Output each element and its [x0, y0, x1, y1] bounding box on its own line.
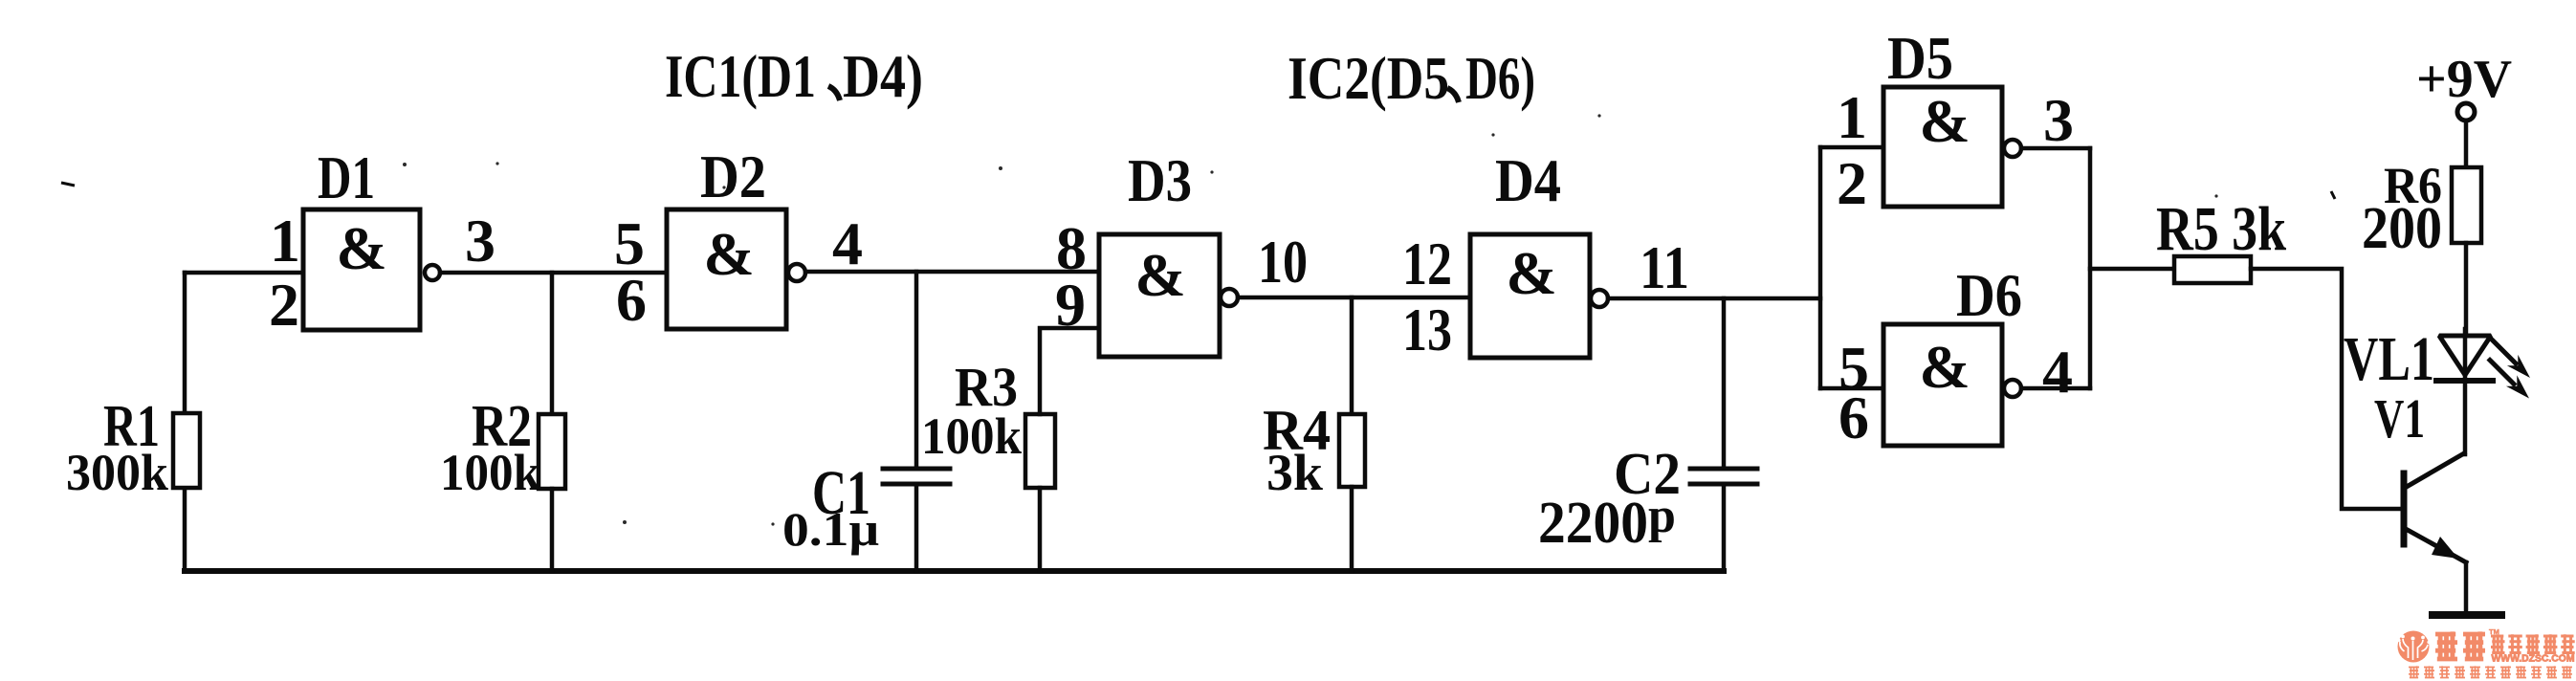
svg-text:&: &: [1919, 87, 1970, 155]
wire R5 to transistor base corner: [2251, 269, 2404, 509]
wire emitter down to ground: [2464, 562, 2469, 613]
nand-gate D3 box: [1099, 234, 1220, 357]
svg-text:IC1(D1: IC1(D1: [665, 42, 816, 110]
capacitor C1 top plate: [883, 467, 950, 472]
wire R2 to bottom rail: [550, 489, 555, 571]
nand-gate D2 box: [667, 209, 786, 329]
svg-text:3: 3: [2043, 86, 2074, 154]
wire C2 branch down from node 11: [1722, 298, 1727, 469]
svg-text:2: 2: [1837, 149, 1867, 217]
nand-gate D5 output bubble: [2004, 140, 2021, 157]
ground symbol bar: [2433, 611, 2501, 619]
svg-text:&: &: [1919, 333, 1970, 401]
scan speck dots: [403, 114, 2218, 525]
wire R6 to LED anode: [2464, 243, 2469, 335]
svg-text:WWW.DZSC.COM: WWW.DZSC.COM: [2492, 653, 2575, 665]
svg-text:V1: V1: [2374, 387, 2425, 450]
capacitor C1 bottom plate: [883, 482, 950, 487]
svg-text:9: 9: [1055, 271, 1086, 339]
svg-text:6: 6: [1838, 384, 1869, 451]
svg-text:+9V: +9V: [2416, 50, 2512, 109]
svg-text:200: 200: [2362, 196, 2442, 261]
chip label IC1(D1,D4): [665, 42, 923, 110]
wire R2 branch down from node 3: [550, 273, 555, 414]
chip label IC2(D5,D6): [1288, 44, 1535, 112]
wire terminal to R6: [2464, 121, 2469, 167]
wire R4 to bottom rail: [1350, 487, 1354, 571]
watermark subtitle characters dianzishichangwang: [2491, 634, 2575, 652]
wire D5/D6 input vertical bus: [1818, 147, 1823, 388]
wire D1 input horizontal: [185, 271, 303, 275]
wire C2 to bottom rail: [1722, 484, 1727, 571]
LED VL1 light emission arrow 2: [2490, 361, 2529, 399]
svg-text:&: &: [703, 220, 754, 288]
wire R3 up to D3 pin 9: [1040, 328, 1099, 414]
transistor V1 collector slant: [2405, 453, 2464, 488]
svg-text:&: &: [1134, 241, 1185, 309]
wire node 11: D4 output to D5/D6 inputs: [1608, 297, 1820, 301]
svg-text:D1: D1: [318, 143, 375, 211]
svg-text:R5 3k: R5 3k: [2156, 194, 2286, 264]
svg-text:D4: D4: [1495, 146, 1561, 214]
wire output vertical bus joining D5 and D6 outputs: [2088, 148, 2093, 388]
wire LED anode through triangle: [2463, 329, 2468, 381]
svg-text:4: 4: [2042, 338, 2073, 406]
svg-text:2200: 2200: [1538, 491, 1648, 556]
svg-text:10: 10: [1258, 228, 1308, 296]
svg-text:D3: D3: [1128, 146, 1192, 214]
svg-text:p: p: [1648, 489, 1676, 543]
nand-gate D6 box: [1883, 324, 2002, 446]
svg-text:3: 3: [465, 207, 495, 275]
LED VL1 cathode bar: [2436, 378, 2493, 384]
svg-text:4: 4: [832, 209, 863, 277]
svg-text:IC2(D5: IC2(D5: [1288, 44, 1449, 112]
svg-text:D5: D5: [1887, 24, 1953, 92]
resistor R2 body: [539, 414, 565, 489]
nand-gate D6 output bubble: [2004, 380, 2021, 397]
nand-gate D1 box: [303, 209, 420, 330]
wire D6 output node 4: [2021, 386, 2090, 391]
nand-gate D1 output bubble: [425, 265, 440, 280]
nand-gate D5 box: [1883, 87, 2002, 207]
transistor V1 base bar: [2401, 473, 2408, 544]
power terminal +9V circle: [2457, 103, 2475, 121]
nand-gate D4 box: [1470, 234, 1590, 358]
nand-gate D4 output bubble: [1591, 290, 1608, 307]
wire C1 branch down from node 4: [914, 272, 919, 469]
resistor R3 body: [1025, 414, 1055, 488]
wire to R5: [2090, 267, 2174, 272]
svg-text:100k: 100k: [921, 407, 1022, 465]
svg-text:1: 1: [270, 207, 300, 275]
resistor R4 body: [1339, 414, 1365, 487]
wire D6 input horizontal: [1820, 386, 1883, 391]
wire node 4: D2 output to D3 pin 8: [805, 270, 1099, 275]
transistor V1 emitter slant: [2406, 529, 2466, 562]
svg-text:11: 11: [1640, 233, 1689, 301]
svg-text:300k: 300k: [66, 444, 168, 501]
svg-text:VL1: VL1: [2344, 324, 2434, 394]
svg-text:D6: D6: [1956, 261, 2022, 329]
watermark slogan characters: [2409, 666, 2572, 677]
wire collector vertical to LED cathode: [2463, 383, 2468, 454]
svg-text:&: &: [1506, 239, 1556, 307]
svg-text:13: 13: [1402, 296, 1452, 363]
transistor V1 emitter arrowhead: [2432, 537, 2458, 559]
wire D5 output node 3: [2021, 146, 2090, 151]
resistor R6 body: [2452, 167, 2481, 243]
watermark logo circle with circuit pattern: [2397, 631, 2430, 663]
wire bottom ground rail: [185, 568, 1724, 574]
scan speck tick near R5: [2331, 191, 2335, 199]
wire node 3: D1 output to D2 input: [440, 271, 667, 275]
LED VL1 light emission arrow 1: [2492, 340, 2530, 378]
svg-text:6: 6: [616, 266, 647, 334]
svg-text:0.1μ: 0.1μ: [782, 502, 879, 556]
wire R3 to bottom rail: [1038, 488, 1043, 571]
wire C1 to bottom rail: [914, 484, 919, 571]
svg-text:D6): D6): [1465, 44, 1535, 112]
resistor R5 body: [2174, 256, 2251, 283]
svg-text:&: &: [336, 214, 386, 282]
svg-text:3k: 3k: [1266, 444, 1323, 501]
svg-text:1: 1: [1837, 83, 1867, 151]
svg-text:D4): D4): [843, 42, 923, 110]
scan speck dash top left: [61, 183, 75, 186]
svg-text:D2: D2: [700, 143, 766, 210]
nand-gate D2 output bubble: [788, 264, 805, 281]
svg-text:100k: 100k: [440, 444, 540, 501]
resistor R1 body: [173, 413, 200, 488]
wire left vertical from D1 inputs down to bottom rail: [183, 273, 187, 571]
svg-text:12: 12: [1402, 230, 1452, 297]
LED VL1 triangle: [2439, 336, 2491, 375]
wire node 10: D3 output to D4 input: [1238, 296, 1470, 300]
capacitor C2 top plate: [1690, 467, 1757, 472]
svg-text:2: 2: [269, 271, 299, 339]
wire D5 input horizontal: [1820, 145, 1883, 150]
wire R4 branch down from node 10: [1350, 297, 1354, 414]
watermark brand characters weiku: [2435, 631, 2485, 659]
nand-gate D3 output bubble: [1221, 289, 1238, 306]
capacitor C2 bottom plate: [1690, 482, 1757, 487]
